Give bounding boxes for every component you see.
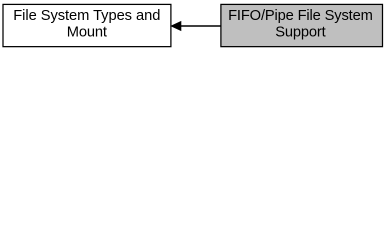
node box (white fill, black border) — [3, 4, 171, 46]
svg-text:Mount: Mount — [67, 25, 107, 41]
svg-text:File System Types and: File System Types and — [13, 8, 160, 24]
svg-text:Support: Support — [275, 25, 325, 41]
background — [0, 0, 387, 52]
node box (grey fill, black border) — [221, 4, 383, 46]
node: File System Types and Mount — [3, 4, 171, 46]
arrowhead pointing left at node boundary — [171, 21, 181, 30]
wire: dependency edge line — [181, 25, 221, 27]
svg-text:FIFO/Pipe File System: FIFO/Pipe File System — [228, 8, 373, 24]
node: FIFO/Pipe File System Support (current node, grey75 fill) — [221, 4, 383, 46]
